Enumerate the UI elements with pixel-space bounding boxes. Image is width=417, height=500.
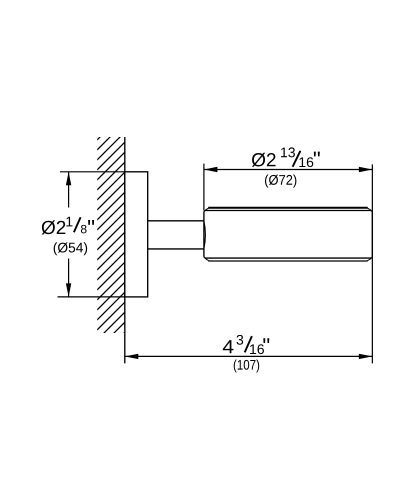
dimension D1 arrow right [359,167,373,172]
stem end curve [204,221,206,249]
dimension D3 arrow left [125,354,139,359]
dimension D1 arrow left [204,167,218,172]
dimension D1 top extension line left [203,164,205,211]
dimension D2 line lower segment [68,259,70,297]
cylinder top edge band [208,207,368,209]
cylinder outline [204,211,372,259]
flange outline [125,172,148,297]
dimension D1 label [252,147,320,167]
stem bottom line [148,248,204,250]
cylinder chamfer edge bottom-left [205,258,208,260]
dimension D1 sub label [265,175,296,188]
dimension D2 label [42,217,94,235]
dimension D2 sub label [54,242,87,255]
dimension extension line right (shared D1/D3) [371,164,373,363]
stem top line [148,220,204,222]
cylinder chamfer edge top-right [367,208,371,210]
dimension D2 extension line bottom [58,296,125,298]
dimension D2 extension line top [60,171,125,173]
wall face line [124,137,126,363]
cylinder chamfer edge bottom-right [367,259,371,261]
dimension D3 arrow right [359,354,373,359]
dimension D3 sub label [234,359,259,372]
cylinder bottom edge line [208,260,368,262]
dimension D3 line [125,355,373,357]
dimension D2 arrow down [66,283,71,297]
dimension D2 line upper segment [68,172,70,208]
wall hatching [97,130,127,360]
dimension D3 label [223,335,269,354]
dimension D2 arrow up [66,172,71,186]
dimension D1 line [204,169,372,171]
cylinder chamfer edge top-left [205,208,208,210]
